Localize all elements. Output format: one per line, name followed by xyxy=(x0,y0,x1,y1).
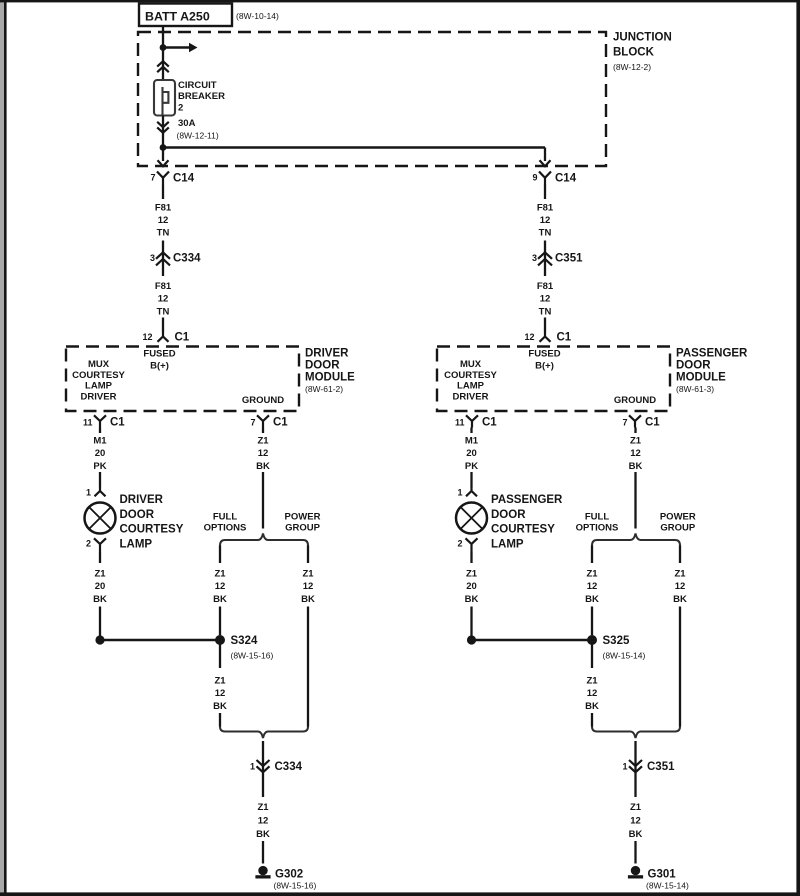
svg-text:BK: BK xyxy=(585,701,599,712)
svg-text:GROUP: GROUP xyxy=(660,523,696,534)
svg-text:Z1: Z1 xyxy=(214,569,226,580)
svg-text:COURTESY: COURTESY xyxy=(120,524,184,536)
svg-text:Z1: Z1 xyxy=(586,569,598,580)
svg-text:12: 12 xyxy=(630,448,641,459)
wire C14 to C-connector (driver) xyxy=(162,185,164,200)
svg-text:BK: BK xyxy=(673,594,687,605)
svg-text:FULL: FULL xyxy=(585,512,609,523)
svg-text:DRIVER: DRIVER xyxy=(305,348,349,360)
connector C334 pin 3 (driver) xyxy=(156,252,170,258)
splice end node (driver) xyxy=(95,635,104,644)
wire into C334 (driver) xyxy=(162,241,164,269)
svg-text:Z1: Z1 xyxy=(214,676,226,687)
wire to fork (passenger) xyxy=(634,472,636,529)
svg-text:FUSED: FUSED xyxy=(143,349,175,360)
left branch wire to merge (driver) xyxy=(219,713,221,727)
svg-text:M1: M1 xyxy=(93,436,107,447)
connector C1 pin 12 (driver) xyxy=(158,332,169,342)
fork split brace (passenger) xyxy=(592,534,680,546)
connector C1 pin 7 (driver) xyxy=(257,415,269,427)
svg-text:COURTESY: COURTESY xyxy=(491,524,555,536)
svg-text:PASSENGER: PASSENGER xyxy=(491,494,563,506)
svg-text:LAMP: LAMP xyxy=(491,538,524,550)
right branch wire upper (driver) xyxy=(307,546,309,564)
svg-text:Z1: Z1 xyxy=(257,802,269,813)
svg-text:POWER: POWER xyxy=(285,512,321,523)
svg-text:12: 12 xyxy=(215,688,226,699)
svg-text:(8W-61-2): (8W-61-2) xyxy=(305,384,343,394)
svg-text:BK: BK xyxy=(629,461,643,472)
svg-text:DRIVER: DRIVER xyxy=(453,391,489,402)
svg-text:12: 12 xyxy=(258,815,269,826)
connector C1 pin 12 (passenger) xyxy=(540,332,551,342)
svg-text:12: 12 xyxy=(215,581,226,592)
svg-text:BK: BK xyxy=(585,594,599,605)
svg-text:(8W-61-3): (8W-61-3) xyxy=(676,384,714,394)
connector C334 pin 1 bottom (driver) xyxy=(257,760,270,766)
wire C1 pin7 down (passenger) xyxy=(634,428,636,434)
svg-text:BK: BK xyxy=(93,594,107,605)
wire C1 pin11 to lamp (passenger) xyxy=(470,428,472,434)
svg-text:3: 3 xyxy=(532,253,537,263)
wire to fork (driver) xyxy=(262,472,264,529)
svg-text:Z1: Z1 xyxy=(94,569,106,580)
wire to door module C1 (passenger) xyxy=(544,318,546,333)
svg-text:1: 1 xyxy=(622,762,627,772)
svg-text:2: 2 xyxy=(86,539,91,549)
svg-text:DOOR: DOOR xyxy=(491,509,526,521)
left branch wire upper (passenger) xyxy=(591,546,593,564)
wire to lamp pin 1 (driver) xyxy=(99,472,101,488)
svg-text:20: 20 xyxy=(95,581,106,592)
svg-text:CIRCUIT: CIRCUIT xyxy=(178,80,217,91)
svg-text:C1: C1 xyxy=(175,332,190,344)
fused output arrow xyxy=(163,46,189,48)
wire merge to C334 (driver) xyxy=(262,741,264,774)
svg-text:MODULE: MODULE xyxy=(305,372,355,384)
wire circuit breaker to node xyxy=(162,116,164,146)
svg-text:MODULE: MODULE xyxy=(676,372,726,384)
svg-text:TN: TN xyxy=(157,228,170,239)
wire C1 pin7 down (driver) xyxy=(262,428,264,434)
svg-text:Z1: Z1 xyxy=(257,436,269,447)
right branch wire long (passenger) xyxy=(679,607,681,727)
svg-text:S325: S325 xyxy=(603,635,630,647)
lamp pin 2 connector (passenger) xyxy=(466,538,478,552)
svg-text:(8W-12-2): (8W-12-2) xyxy=(613,62,651,72)
svg-text:20: 20 xyxy=(466,581,477,592)
page frame left gray strip xyxy=(0,0,4,896)
svg-text:12: 12 xyxy=(524,332,534,342)
wire into C351 (passenger) xyxy=(544,241,546,269)
svg-text:DRIVER: DRIVER xyxy=(120,494,164,506)
wire C334 to ground label (driver) xyxy=(262,774,264,798)
svg-text:DOOR: DOOR xyxy=(305,360,340,372)
splice node to both doors xyxy=(160,144,167,151)
merge brace (driver) xyxy=(220,727,308,739)
svg-text:BK: BK xyxy=(213,701,227,712)
wire lamp to splice (passenger) xyxy=(470,552,472,563)
page frame left line xyxy=(4,0,7,896)
svg-text:BREAKER: BREAKER xyxy=(178,91,225,102)
svg-text:(8W-15-16): (8W-15-16) xyxy=(231,651,274,661)
wire to ground (driver) xyxy=(262,841,264,864)
svg-text:GROUND: GROUND xyxy=(614,395,656,406)
svg-text:LAMP: LAMP xyxy=(457,381,485,392)
page frame bottom bar xyxy=(0,892,800,896)
svg-text:F81: F81 xyxy=(155,203,172,214)
svg-text:BK: BK xyxy=(629,829,643,840)
left branch wire upper (driver) xyxy=(219,546,221,564)
splice node in junction block xyxy=(160,44,167,51)
svg-text:MUX: MUX xyxy=(88,359,110,370)
svg-text:C334: C334 xyxy=(173,253,201,265)
svg-text:7: 7 xyxy=(150,173,155,183)
svg-text:F81: F81 xyxy=(537,281,554,292)
left branch wire to splice (driver) xyxy=(219,607,221,636)
svg-text:G301: G301 xyxy=(648,869,677,881)
merge brace (passenger) xyxy=(592,727,680,739)
splice S324 xyxy=(215,635,225,645)
wire C14 to C-connector (passenger) xyxy=(544,185,546,200)
svg-text:GROUP: GROUP xyxy=(285,523,321,534)
wire below splice (passenger) xyxy=(591,640,593,668)
svg-text:BATT A250: BATT A250 xyxy=(145,10,210,24)
svg-text:(8W-15-16): (8W-15-16) xyxy=(274,881,317,891)
svg-text:12: 12 xyxy=(587,688,598,699)
svg-text:12: 12 xyxy=(142,332,152,342)
ground G302 xyxy=(258,866,267,875)
right branch wire long (driver) xyxy=(307,607,309,727)
svg-text:F81: F81 xyxy=(155,281,172,292)
svg-text:C14: C14 xyxy=(555,173,577,185)
svg-text:COURTESY: COURTESY xyxy=(72,370,125,381)
svg-text:C1: C1 xyxy=(645,417,660,429)
svg-text:C334: C334 xyxy=(275,761,303,773)
svg-text:Z1: Z1 xyxy=(586,676,598,687)
wire node to circuit breaker xyxy=(162,48,164,88)
connector C1 pin 7 (passenger) xyxy=(629,415,641,427)
connector C1 pin 11 (driver) xyxy=(94,415,106,427)
splice S325 xyxy=(587,635,597,645)
wire lamp to splice (driver) xyxy=(99,552,101,563)
driver door courtesy lamp xyxy=(85,503,116,534)
svg-text:12: 12 xyxy=(540,215,551,226)
svg-text:M1: M1 xyxy=(465,436,479,447)
connector C14 pin 9 (passenger) xyxy=(539,172,551,185)
svg-text:C351: C351 xyxy=(555,253,583,265)
svg-text:FULL: FULL xyxy=(213,512,237,523)
lamp pin 2 connector (driver) xyxy=(94,538,106,552)
wire below splice (driver) xyxy=(219,640,221,668)
svg-text:LAMP: LAMP xyxy=(120,538,153,550)
svg-text:Z1: Z1 xyxy=(466,569,478,580)
wire C1 pin11 to lamp (driver) xyxy=(99,428,101,434)
svg-text:OPTIONS: OPTIONS xyxy=(204,523,247,534)
svg-text:Z1: Z1 xyxy=(630,802,642,813)
passenger door module box (dashed) xyxy=(437,347,670,412)
svg-text:TN: TN xyxy=(539,306,552,317)
svg-text:DOOR: DOOR xyxy=(120,509,155,521)
svg-text:G302: G302 xyxy=(275,869,303,881)
svg-text:C1: C1 xyxy=(273,417,288,429)
svg-text:(8W-12-11): (8W-12-11) xyxy=(177,131,219,141)
svg-text:GROUND: GROUND xyxy=(242,395,284,406)
svg-text:Z1: Z1 xyxy=(674,569,686,580)
passenger door courtesy lamp xyxy=(456,503,487,534)
svg-text:12: 12 xyxy=(630,815,641,826)
wire drop to passenger C14 xyxy=(544,148,546,162)
svg-text:(8W-10-14): (8W-10-14) xyxy=(236,11,279,21)
svg-text:Z1: Z1 xyxy=(302,569,314,580)
svg-text:C1: C1 xyxy=(557,332,572,344)
page frame right line xyxy=(796,0,800,896)
svg-text:B(+): B(+) xyxy=(535,361,554,372)
wire to splice node (driver) xyxy=(99,607,101,637)
wire C351 to C1 (passenger) xyxy=(544,268,546,276)
svg-text:12: 12 xyxy=(303,581,314,592)
splice jumper wire (passenger) xyxy=(472,639,593,641)
arrowhead into driver C14 xyxy=(158,160,169,166)
svg-text:C351: C351 xyxy=(647,761,675,773)
wire drop to driver C14 xyxy=(162,148,164,162)
junction block box (dashed) xyxy=(138,32,606,166)
svg-text:11: 11 xyxy=(455,418,465,428)
wire to door module C1 (driver) xyxy=(162,318,164,333)
svg-text:PK: PK xyxy=(465,461,478,472)
svg-text:(8W-15-14): (8W-15-14) xyxy=(603,651,646,661)
svg-text:BK: BK xyxy=(213,594,227,605)
svg-text:3: 3 xyxy=(150,253,155,263)
svg-text:1: 1 xyxy=(457,488,462,498)
svg-text:12: 12 xyxy=(675,581,686,592)
left branch wire to splice (passenger) xyxy=(591,607,593,636)
svg-text:20: 20 xyxy=(466,448,477,459)
svg-text:TN: TN xyxy=(539,228,552,239)
svg-text:COURTESY: COURTESY xyxy=(444,370,497,381)
ground G301 xyxy=(631,866,640,875)
svg-text:30A: 30A xyxy=(178,118,196,129)
wire to splice node (passenger) xyxy=(470,607,472,637)
bus wire across junction block xyxy=(163,146,545,148)
wire BATT A250 to splice node xyxy=(162,26,164,45)
svg-text:LAMP: LAMP xyxy=(85,381,113,392)
lamp pin 1 connector (driver) xyxy=(95,488,106,497)
svg-text:BK: BK xyxy=(465,594,479,605)
svg-text:12: 12 xyxy=(540,294,551,305)
connector C1 pin 11 (passenger) xyxy=(466,415,478,427)
svg-text:C14: C14 xyxy=(173,173,195,185)
svg-text:S324: S324 xyxy=(231,635,258,647)
arrowhead into passenger C14 xyxy=(540,160,551,166)
fork split brace (driver) xyxy=(220,534,308,546)
wire to lamp pin 1 (passenger) xyxy=(470,472,472,488)
wire C334 to C1 (driver) xyxy=(162,268,164,276)
svg-text:12: 12 xyxy=(258,448,269,459)
svg-text:7: 7 xyxy=(250,418,255,428)
svg-text:2: 2 xyxy=(178,103,183,114)
svg-text:BK: BK xyxy=(256,829,270,840)
svg-text:JUNCTION: JUNCTION xyxy=(613,32,672,44)
lamp pin 1 connector (passenger) xyxy=(466,488,477,497)
svg-text:PASSENGER: PASSENGER xyxy=(676,348,748,360)
svg-text:POWER: POWER xyxy=(660,512,696,523)
connector chevrons above circuit breaker xyxy=(157,61,169,66)
svg-text:C1: C1 xyxy=(482,417,497,429)
right branch wire upper (passenger) xyxy=(679,546,681,564)
battery feed box BATT A250 xyxy=(139,4,232,27)
svg-text:BK: BK xyxy=(301,594,315,605)
svg-text:2: 2 xyxy=(457,539,462,549)
svg-text:MUX: MUX xyxy=(460,359,482,370)
page frame top bar xyxy=(0,0,800,2)
wire to ground (passenger) xyxy=(634,841,636,864)
wire C351 to ground label (passenger) xyxy=(634,774,636,798)
svg-text:PK: PK xyxy=(93,461,106,472)
svg-text:DRIVER: DRIVER xyxy=(81,391,117,402)
svg-text:OPTIONS: OPTIONS xyxy=(576,523,619,534)
svg-text:F81: F81 xyxy=(537,203,554,214)
svg-text:B(+): B(+) xyxy=(150,361,169,372)
splice jumper wire (driver) xyxy=(100,639,220,641)
circuit breaker CB2 body xyxy=(154,80,175,116)
connector C351 pin 1 bottom (passenger) xyxy=(629,760,642,766)
svg-text:11: 11 xyxy=(83,418,93,428)
svg-text:DOOR: DOOR xyxy=(676,360,711,372)
svg-text:9: 9 xyxy=(532,173,537,183)
svg-text:Z1: Z1 xyxy=(630,436,642,447)
svg-text:12: 12 xyxy=(158,215,169,226)
driver door module box (dashed) xyxy=(66,347,299,412)
svg-text:C1: C1 xyxy=(110,417,125,429)
splice end node (passenger) xyxy=(467,635,476,644)
svg-text:FUSED: FUSED xyxy=(528,349,560,360)
svg-text:BK: BK xyxy=(256,461,270,472)
svg-text:20: 20 xyxy=(95,448,106,459)
svg-text:BLOCK: BLOCK xyxy=(613,47,655,59)
svg-text:TN: TN xyxy=(157,306,170,317)
left branch wire to merge (passenger) xyxy=(591,713,593,727)
connector chevrons below circuit breaker xyxy=(157,122,169,127)
svg-text:1: 1 xyxy=(250,762,255,772)
svg-text:(8W-15-14): (8W-15-14) xyxy=(646,881,689,891)
wire merge to C351 (passenger) xyxy=(634,741,636,774)
svg-text:7: 7 xyxy=(622,418,627,428)
connector C14 pin 7 (driver) xyxy=(157,172,169,185)
svg-text:1: 1 xyxy=(86,488,91,498)
svg-text:12: 12 xyxy=(587,581,598,592)
svg-text:12: 12 xyxy=(158,294,169,305)
connector C351 pin 3 (passenger) xyxy=(538,252,552,258)
